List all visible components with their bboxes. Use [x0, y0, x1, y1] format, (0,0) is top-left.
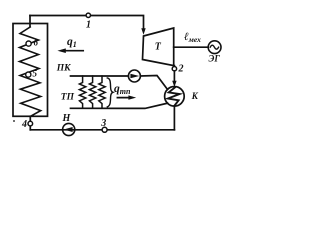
boiler heating-surface zigzag — [20, 27, 41, 116]
svg-text:Т: Т — [155, 42, 162, 53]
wire pump to condenser upper-left — [140, 76, 167, 90]
sine wave inside generator — [210, 45, 218, 49]
TP bottom bus — [71, 103, 168, 108]
top steam wire to turbine — [30, 16, 144, 30]
condensate drop from condenser — [173, 106, 175, 130]
bottom condensate wire — [30, 129, 174, 131]
state point 5 (circle on zigzag) — [26, 72, 31, 77]
generator EG circle — [208, 41, 221, 54]
condenser K circle — [165, 87, 185, 107]
state point 6 (circle on zigzag) — [26, 41, 31, 46]
TP resistor 1 — [79, 76, 85, 108]
svg-text:5: 5 — [33, 69, 38, 79]
svg-text:К: К — [191, 91, 199, 101]
network pump circle — [128, 70, 140, 82]
q_tp arrow — [117, 97, 132, 99]
TP resistor 3 — [99, 76, 105, 108]
network pump arrow (right) — [130, 74, 139, 78]
svg-text:3: 3 — [100, 118, 106, 129]
node 2 — [172, 67, 176, 71]
turbine exhaust to node 2 — [173, 66, 175, 67]
boiler PK rectangle — [13, 24, 48, 117]
pump N arrow (left) — [64, 127, 73, 132]
node 4 — [28, 121, 33, 126]
wire riser from boiler to top wire — [29, 16, 31, 27]
shaft turbine-generator — [174, 46, 208, 48]
svg-text:6: 6 — [34, 38, 39, 48]
node 1 — [86, 13, 90, 17]
svg-text:q1: q1 — [67, 36, 77, 49]
brace — [107, 78, 113, 107]
turbine T trapezoid — [143, 28, 174, 66]
pump N circle — [63, 123, 75, 135]
TP resistor 2 — [89, 76, 95, 108]
node 3 — [102, 127, 107, 132]
svg-text:4: 4 — [21, 119, 27, 130]
wire node2 to condenser — [173, 71, 175, 82]
svg-text:Н: Н — [62, 113, 72, 124]
arrow into condenser — [172, 81, 176, 87]
svg-text:1: 1 — [86, 20, 91, 31]
svg-text:ЭГ: ЭГ — [209, 54, 221, 64]
TP top bus — [71, 75, 129, 77]
q1 arrow — [62, 50, 83, 52]
svg-text:ℓмех: ℓмех — [184, 31, 201, 44]
svg-text:qтп: qтп — [114, 83, 131, 96]
svg-text:2: 2 — [178, 64, 184, 75]
wire up to node 4 and boiler — [29, 116, 31, 130]
condenser coil zigzag — [168, 87, 180, 105]
svg-text:ТП: ТП — [61, 93, 75, 103]
svg-text:ПК: ПК — [56, 64, 71, 74]
speck near node 4 — [13, 120, 15, 121]
arrow into turbine — [141, 28, 145, 35]
